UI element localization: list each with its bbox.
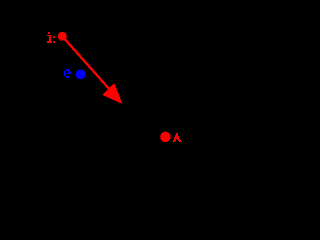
node arrowhead: [102, 83, 122, 104]
label A: [173, 133, 182, 142]
label i:: [47, 32, 55, 43]
wire (vector shaft): [62, 36, 111, 91]
node i (red point): [58, 32, 67, 41]
label e: [64, 69, 72, 78]
node e (blue point): [76, 69, 86, 79]
node A (red point): [160, 132, 171, 143]
